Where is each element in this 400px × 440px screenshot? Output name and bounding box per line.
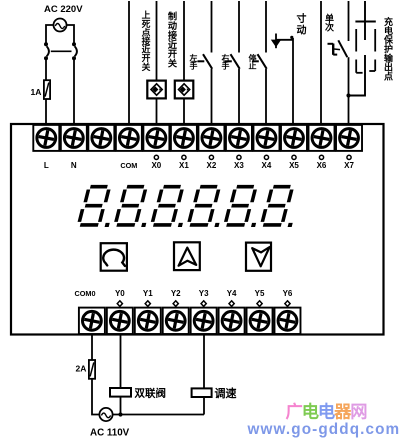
pushbutton 寸动 jog contact	[271, 40, 281, 48]
wire X5 to terminal	[292, 38, 294, 124]
svg-text:手: 手	[190, 60, 198, 70]
display digit 4	[186, 185, 229, 227]
wire switch to fuse FU1	[45, 58, 47, 80]
svg-text:2A: 2A	[76, 364, 87, 374]
svg-text:制: 制	[168, 11, 177, 22]
switch S1 double-pole, left contact	[44, 42, 48, 46]
button reset (circular arrow)	[101, 243, 127, 271]
selector switch 单次 contact	[328, 43, 334, 45]
display digit 5	[223, 185, 266, 227]
terminal X0 screw	[143, 125, 169, 151]
node mark Y0	[117, 301, 122, 307]
svg-text:止: 止	[249, 60, 257, 70]
button down arrow	[246, 243, 271, 271]
svg-text:双联阀: 双联阀	[134, 386, 167, 399]
terminal X2 screw	[198, 125, 224, 151]
coil KA2 调速	[192, 388, 212, 397]
display digit 2	[113, 185, 156, 227]
svg-text:点: 点	[384, 71, 393, 82]
wire X3 lower to terminal	[238, 69, 240, 124]
terminal COM0 screw	[79, 308, 105, 334]
svg-text:广: 广	[286, 401, 303, 421]
svg-text:X3: X3	[234, 161, 244, 170]
node mark X3	[237, 155, 241, 159]
wire Y3 down	[203, 334, 205, 388]
svg-text:AC 220V: AC 220V	[44, 4, 83, 15]
wire X3 upper	[238, 1, 240, 53]
display digit 1	[76, 185, 119, 227]
charge-protection relay contact (dashed)	[364, 1, 366, 40]
wire coil KA1 to bus	[120, 397, 122, 415]
svg-text:调速: 调速	[215, 386, 237, 400]
switch S1 tie bar	[51, 50, 72, 52]
wire charge-protection output to X7	[349, 55, 366, 96]
wire X2 upper	[211, 1, 213, 53]
AC source G2 110V	[99, 408, 112, 421]
node mark X4	[264, 155, 268, 159]
wire X1 lower to terminal X1	[183, 98, 185, 124]
terminal Y1 screw	[135, 308, 161, 334]
terminal X3 screw	[226, 125, 252, 151]
wire X0 upper	[156, 1, 158, 81]
node mark X7	[347, 155, 351, 159]
wire X7 upper	[348, 1, 350, 41]
svg-text:1A: 1A	[31, 87, 42, 97]
node mark Y1	[145, 301, 150, 307]
svg-text:Y4: Y4	[227, 289, 237, 298]
display digit 6	[259, 185, 302, 227]
node mark Y6	[285, 301, 290, 307]
AC source G1 220V	[54, 19, 67, 32]
svg-text:COM0: COM0	[74, 289, 95, 298]
terminal Y4 screw	[219, 308, 245, 334]
terminal Y2 screw	[163, 308, 189, 334]
node mark X1	[182, 155, 186, 159]
wire X6	[320, 1, 322, 124]
svg-text:X7: X7	[344, 161, 354, 170]
wire X0 lower to terminal X0	[156, 98, 158, 124]
wire fuse to terminal L	[45, 99, 47, 124]
svg-text:Y0: Y0	[115, 289, 125, 298]
coil KA1 双联阀	[110, 388, 131, 397]
pushbutton 右手 NO contact	[231, 54, 240, 69]
pushbutton 左手 NO contact	[203, 54, 212, 69]
wire COM input common	[128, 1, 130, 124]
wire fuse to AC110V source	[92, 379, 99, 415]
svg-text:寸: 寸	[297, 12, 307, 25]
terminal Y0 screw	[107, 308, 133, 334]
svg-text:www.go-gddq.com: www.go-gddq.com	[247, 421, 400, 438]
wire COM0 down	[91, 334, 93, 360]
terminal Y3 screw	[191, 308, 217, 334]
svg-text:X4: X4	[262, 161, 272, 170]
svg-text:接: 接	[168, 29, 178, 40]
node mark Y5	[257, 301, 262, 307]
wire Y0 down	[120, 334, 122, 388]
svg-text:Y3: Y3	[199, 289, 209, 298]
svg-text:Y2: Y2	[171, 289, 181, 298]
svg-text:Y5: Y5	[255, 289, 265, 298]
svg-text:次: 次	[325, 21, 334, 32]
fuse FU1 1A	[44, 80, 50, 99]
wire X4 upper	[265, 1, 267, 53]
svg-text:COM: COM	[120, 161, 137, 170]
junction Y0 branch	[118, 412, 122, 416]
node mark X5	[292, 155, 296, 159]
proximity switch SQ2 (brake)	[175, 81, 194, 99]
terminal unused screw	[88, 125, 114, 151]
wire X1 upper	[183, 1, 185, 81]
terminal X5 screw	[281, 125, 307, 151]
terminal X7 screw	[336, 125, 362, 151]
terminal COM screw	[116, 125, 142, 151]
svg-text:AC 110V: AC 110V	[90, 428, 130, 439]
svg-text:Y1: Y1	[143, 289, 153, 298]
svg-text:X2: X2	[207, 161, 217, 170]
wire from source to switch S1 right pole	[67, 25, 75, 43]
display digit 3	[150, 185, 193, 227]
svg-text:手: 手	[222, 60, 230, 70]
switch S1 double-pole, right contact	[72, 42, 76, 46]
terminal Y6 screw	[274, 308, 300, 334]
svg-text:近: 近	[168, 39, 178, 50]
terminal N screw	[61, 125, 87, 151]
svg-text:网: 网	[350, 401, 367, 421]
pushbutton 停止 NO contact	[258, 54, 267, 69]
wire coil KA2 to bus	[203, 397, 205, 415]
svg-text:关: 关	[142, 61, 151, 72]
svg-text:L: L	[44, 161, 49, 170]
svg-text:X6: X6	[317, 161, 327, 170]
node mark X2	[209, 155, 213, 159]
svg-text:X1: X1	[179, 161, 189, 170]
svg-text:器: 器	[333, 401, 352, 421]
svg-text:电: 电	[318, 401, 335, 421]
svg-text:关: 关	[168, 58, 178, 69]
button up arrow	[174, 242, 200, 270]
terminal L screw	[33, 125, 59, 151]
terminal X6 screw	[309, 125, 335, 151]
node mark Y4	[229, 301, 234, 307]
controller enclosure U1	[11, 124, 384, 335]
wire X7 lower to terminal	[348, 57, 350, 124]
terminal X1 screw	[171, 125, 197, 151]
node mark X6	[319, 155, 323, 159]
wire X4 lower to terminal	[265, 69, 267, 124]
terminal X4 screw	[253, 125, 279, 151]
node mark Y3	[201, 301, 206, 307]
bottom supply bus	[113, 414, 204, 416]
terminal Y5 screw	[247, 308, 273, 334]
svg-text:X0: X0	[151, 161, 161, 170]
svg-text:电: 电	[302, 401, 319, 421]
wire X2 lower to terminal	[211, 69, 213, 124]
wire switch to terminal N	[73, 58, 75, 124]
fuse FU2 2A	[89, 360, 95, 379]
node mark X0	[154, 155, 158, 159]
node mark Y2	[173, 301, 178, 307]
svg-text:动: 动	[297, 23, 307, 36]
svg-text:X5: X5	[289, 161, 299, 170]
wire from source to switch S1 left pole	[46, 25, 54, 43]
svg-text:N: N	[71, 161, 77, 170]
junction on X7 wire	[346, 93, 350, 97]
svg-text:Y6: Y6	[283, 289, 293, 298]
proximity switch SQ1 (upper dead point)	[147, 81, 166, 99]
